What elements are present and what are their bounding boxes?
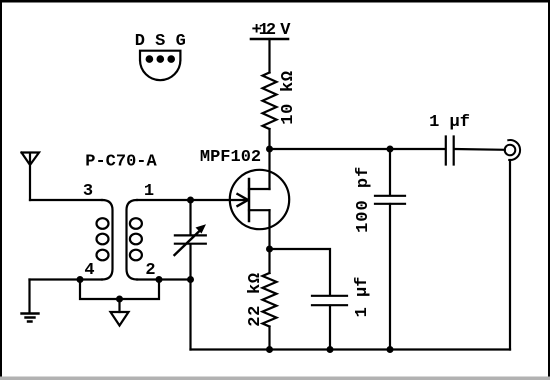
svg-text:22 kΩ: 22 kΩ: [246, 272, 265, 327]
svg-text:100 pf: 100 pf: [354, 166, 373, 233]
svg-text:10 kΩ: 10 kΩ: [279, 70, 298, 125]
svg-text:+12 V: +12 V: [251, 21, 291, 40]
svg-text:P-C70-A: P-C70-A: [85, 153, 157, 172]
svg-text:D S G: D S G: [135, 32, 186, 51]
svg-text:2: 2: [145, 261, 155, 280]
svg-text:1 μf: 1 μf: [353, 277, 372, 318]
svg-text:1: 1: [144, 182, 154, 201]
svg-text:MPF102: MPF102: [200, 148, 261, 167]
svg-text:1 μf: 1 μf: [429, 113, 470, 132]
svg-text:3: 3: [83, 182, 93, 201]
svg-text:4: 4: [84, 261, 94, 280]
